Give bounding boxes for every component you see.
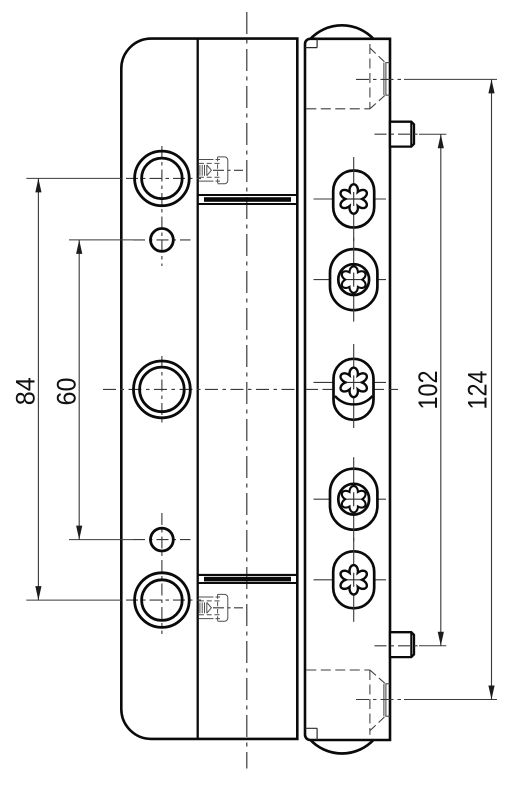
hole H1 outer bbox=[135, 151, 190, 206]
small hole S1 bbox=[151, 229, 174, 252]
hidden end cap lower (dashed) bbox=[306, 670, 390, 735]
hole H2 axis hidden line across both plates bbox=[103, 388, 297, 390]
knuckle gap upper: section edges bbox=[198, 194, 298, 196]
end cap axis bottom + extension for dim 124 bbox=[356, 699, 404, 701]
hole H2 axis hidden line on frame part bbox=[306, 388, 398, 390]
dim 102 line + arrows bbox=[440, 134, 442, 646]
torx screw 1 bbox=[314, 198, 387, 200]
grub screw upper (side view) bbox=[199, 157, 228, 184]
svg-text:124: 124 bbox=[463, 371, 493, 410]
main hinge axis centerline bbox=[246, 12, 248, 769]
torx screw 2 bbox=[314, 279, 387, 281]
knuckle gap lower: seal bar bbox=[204, 577, 291, 582]
small hole S2 horizontal centerline bbox=[133, 539, 191, 541]
hole H2 outer bbox=[134, 361, 191, 418]
svg-text:102: 102 bbox=[413, 371, 443, 410]
dim 84 extension lines bbox=[26, 178, 121, 600]
knuckle gap upper: seal bar bbox=[204, 197, 291, 202]
small hole S1 horizontal centerline bbox=[133, 239, 191, 241]
end cap axis top + extension for dim 124 bbox=[356, 78, 404, 80]
hole column vertical centerline segments bbox=[161, 146, 163, 634]
svg-text:60: 60 bbox=[52, 378, 82, 406]
locating pin top bbox=[390, 122, 414, 147]
hidden end cap upper (dashed) bbox=[306, 44, 390, 109]
hole H1 horizontal centerline bbox=[126, 177, 201, 179]
dim 124 line + arrows bbox=[491, 79, 493, 699]
corner step mark top-left bbox=[305, 39, 317, 48]
left plate inner edge line bbox=[197, 39, 199, 739]
small hole S2 bbox=[151, 528, 174, 551]
pin top axis + extension for dim 102 bbox=[375, 133, 420, 135]
frame part top arc bbox=[310, 25, 374, 39]
dim 60 line + arrows bbox=[78, 240, 80, 540]
frame part bottom arc bbox=[310, 740, 374, 754]
frame part plate outline bbox=[305, 39, 390, 740]
torx screw 4 bbox=[314, 498, 387, 500]
hole H2 inner bbox=[140, 367, 185, 412]
hole H3 outer bbox=[135, 573, 190, 628]
torx screw 5 bbox=[314, 579, 387, 581]
knuckle gap lower: section edges bbox=[198, 574, 298, 576]
grub screw lower (side view) bbox=[199, 594, 228, 621]
hole H3 horizontal centerline bbox=[126, 599, 201, 601]
pin bottom axis + extension for dim 102 bbox=[375, 645, 420, 647]
dim 60 extension lines bbox=[69, 240, 133, 540]
locating pin bottom bbox=[390, 632, 414, 657]
hole H3 inner bbox=[142, 580, 183, 621]
svg-text:84: 84 bbox=[11, 377, 41, 405]
corner step mark bottom-left bbox=[305, 728, 317, 740]
hole H1 inner bbox=[142, 158, 183, 199]
left leaf plate outline bbox=[121, 39, 297, 739]
dim 84 line + arrows bbox=[37, 178, 39, 600]
torx screw 3 (seated low in slot) bbox=[314, 381, 387, 383]
